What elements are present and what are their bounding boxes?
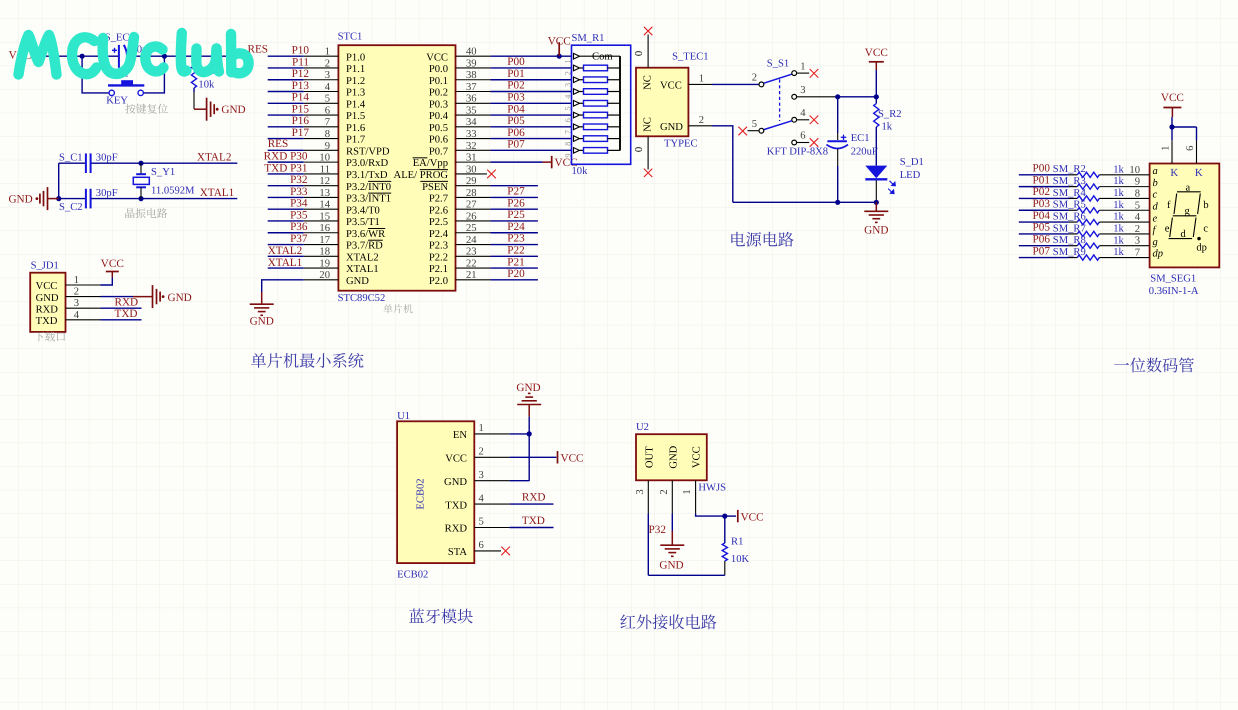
wire pin2 to GND bbox=[101, 296, 134, 298]
svg-text:3: 3 bbox=[563, 83, 572, 87]
wire KEY left leg bbox=[82, 56, 109, 93]
svg-text:S_TEC1: S_TEC1 bbox=[672, 52, 709, 63]
svg-text:P2.6: P2.6 bbox=[429, 205, 448, 216]
svg-text:P32: P32 bbox=[649, 524, 666, 536]
pin 2 stub S_JD1 bbox=[66, 296, 101, 298]
wire P00 to SM_R2 bbox=[1019, 174, 1069, 176]
pin 17 P3.7/RD bbox=[304, 235, 383, 252]
svg-text:P27: P27 bbox=[507, 186, 525, 198]
pin 2 GND (U2) bbox=[659, 445, 680, 513]
svg-text:2: 2 bbox=[74, 287, 79, 298]
svg-text:4: 4 bbox=[1135, 212, 1141, 223]
ground GND (U1 top) bbox=[516, 382, 541, 417]
resistor SM_R5 1k bbox=[1077, 208, 1099, 213]
no-connect X STA bbox=[501, 547, 510, 556]
wire XTAL1 row bbox=[268, 267, 304, 269]
wire EA/Vpp to VCC port bbox=[490, 161, 542, 163]
svg-text:a: a bbox=[1153, 166, 1158, 177]
svg-text:VCC: VCC bbox=[561, 453, 584, 465]
wire P26 bbox=[490, 208, 538, 210]
wire P20 bbox=[490, 279, 538, 281]
switch contact 5 with X bbox=[759, 128, 764, 133]
wire VCC pin2 bbox=[510, 456, 557, 458]
svg-text:P36: P36 bbox=[290, 221, 308, 233]
svg-text:U1: U1 bbox=[397, 411, 410, 422]
svg-text:P1.1: P1.1 bbox=[346, 64, 365, 75]
svg-text:VCC: VCC bbox=[36, 281, 58, 292]
svg-text:EA/Vpp: EA/Vpp bbox=[413, 158, 448, 169]
svg-text:6: 6 bbox=[479, 540, 484, 551]
svg-text:XTAL1: XTAL1 bbox=[200, 187, 235, 199]
svg-text:VCC: VCC bbox=[1161, 92, 1184, 104]
svg-text:NC: NC bbox=[643, 75, 654, 90]
svg-text:TXD: TXD bbox=[445, 500, 467, 511]
svg-text:GND: GND bbox=[864, 225, 888, 237]
svg-text:RES: RES bbox=[268, 138, 289, 150]
pin 9 RST/VPD bbox=[304, 141, 390, 158]
svg-text:P05: P05 bbox=[1033, 222, 1051, 234]
svg-text:3: 3 bbox=[479, 470, 484, 481]
svg-text:30pF: 30pF bbox=[96, 152, 118, 163]
svg-text:1: 1 bbox=[682, 489, 693, 494]
wire S_R2 to LED bbox=[875, 131, 877, 166]
svg-text:GND: GND bbox=[168, 292, 192, 304]
wire TYPEC pin1 to switch bbox=[712, 83, 759, 85]
svg-text:P07: P07 bbox=[507, 139, 525, 151]
wire P01 to SM_R3 bbox=[1019, 186, 1069, 188]
svg-text:5: 5 bbox=[479, 517, 484, 528]
wire PSEN pin29 bbox=[490, 185, 538, 187]
svg-text:9: 9 bbox=[563, 154, 572, 158]
pin 26 P2.5 bbox=[429, 211, 491, 228]
wire P04 bbox=[490, 114, 571, 116]
svg-text:P1.5: P1.5 bbox=[346, 111, 365, 122]
switch contact 4 with X bbox=[792, 117, 797, 122]
svg-text:GND: GND bbox=[36, 293, 59, 304]
svg-text:P2.5: P2.5 bbox=[429, 217, 448, 228]
pin 31 EA/Vpp bbox=[413, 153, 491, 170]
pin 36 P0.3 bbox=[429, 94, 491, 111]
svg-text:RXD: RXD bbox=[36, 304, 59, 315]
svg-text:2: 2 bbox=[699, 115, 704, 126]
svg-text:f: f bbox=[1167, 200, 1171, 211]
no-connect X pin30 bbox=[487, 170, 496, 179]
wire bottom loop (U2) bbox=[648, 574, 725, 576]
svg-text:LED: LED bbox=[900, 170, 921, 181]
svg-text:GND: GND bbox=[444, 477, 467, 488]
svg-text:3: 3 bbox=[74, 298, 79, 309]
pin 29 PSEN bbox=[422, 176, 490, 193]
logo MCUclub bbox=[19, 33, 249, 75]
wire GND pin20 bbox=[262, 280, 304, 292]
svg-text:K: K bbox=[1170, 167, 1178, 179]
svg-text:1k: 1k bbox=[1113, 176, 1124, 187]
node junction R1 top bbox=[722, 514, 727, 519]
svg-text:8: 8 bbox=[563, 142, 572, 146]
wire P37 bbox=[268, 244, 304, 246]
pin 3 P1.2 bbox=[304, 70, 365, 87]
svg-text:b: b bbox=[1153, 178, 1158, 189]
wire OUT down (P32) bbox=[647, 514, 649, 576]
svg-text:P2.2: P2.2 bbox=[429, 252, 448, 263]
svg-text:P21: P21 bbox=[507, 256, 524, 268]
wire P11 bbox=[268, 67, 304, 69]
svg-text:STC89C52: STC89C52 bbox=[338, 293, 386, 304]
svg-text:XTAL1: XTAL1 bbox=[268, 257, 303, 269]
caption infrared receiver (blue) bbox=[620, 614, 716, 629]
svg-text:S_JD1: S_JD1 bbox=[31, 261, 59, 272]
wire P01 bbox=[490, 79, 571, 81]
svg-text:P06: P06 bbox=[507, 127, 525, 139]
svg-text:dp: dp bbox=[1196, 242, 1207, 253]
wire XTAL1 (bottom) bbox=[59, 198, 86, 200]
svg-text:P33: P33 bbox=[290, 186, 308, 198]
power port VCC (MCU pin40) bbox=[548, 36, 571, 59]
wire P21 bbox=[490, 267, 538, 269]
svg-text:GND: GND bbox=[221, 104, 245, 116]
svg-text:P13: P13 bbox=[292, 80, 310, 92]
svg-text:TXD: TXD bbox=[522, 515, 545, 527]
pin 8 P1.7 bbox=[304, 129, 365, 146]
svg-text:VCC: VCC bbox=[865, 47, 888, 59]
pin 11 P3.1/TxD bbox=[304, 164, 388, 181]
switch lever 2-1 bbox=[764, 74, 792, 83]
svg-text:NC: NC bbox=[643, 117, 654, 132]
svg-text:RXD P30: RXD P30 bbox=[264, 151, 308, 163]
svg-text:P0.5: P0.5 bbox=[429, 123, 448, 134]
ground GND (MCU pin20) bbox=[250, 292, 274, 327]
svg-text:S_Y1: S_Y1 bbox=[151, 167, 175, 178]
wire P13 bbox=[268, 91, 304, 93]
svg-text:5: 5 bbox=[1135, 200, 1140, 211]
resistor SM_R4 1k bbox=[1077, 196, 1099, 201]
pin 28 P2.7 bbox=[429, 188, 491, 205]
svg-text:P00: P00 bbox=[1033, 163, 1051, 175]
svg-text:P3.1/TxD: P3.1/TxD bbox=[346, 170, 388, 181]
svg-text:SM_R2: SM_R2 bbox=[1053, 164, 1086, 175]
wire VCC to RES net bbox=[36, 55, 119, 57]
svg-text:P04: P04 bbox=[507, 103, 525, 115]
pin 39 P0.0 bbox=[429, 58, 491, 75]
wire pin4 TXD bbox=[101, 319, 142, 321]
wire GND rail bottom bbox=[733, 201, 877, 203]
wire P04 to SM_R6 bbox=[1019, 221, 1069, 223]
svg-text:SM_SEG1: SM_SEG1 bbox=[1150, 274, 1196, 285]
svg-text:1k: 1k bbox=[1113, 188, 1124, 199]
wire pin1 to VCC bbox=[101, 278, 113, 286]
wire P03 bbox=[490, 102, 571, 104]
svg-text:P01: P01 bbox=[1033, 174, 1050, 186]
capacitor S_C2 30pF bbox=[59, 188, 118, 213]
power port VCC (U1) bbox=[558, 451, 584, 464]
svg-text:SM_R5: SM_R5 bbox=[1053, 200, 1086, 211]
wire VCC rail down bbox=[875, 70, 877, 97]
resistor network internal bbox=[574, 53, 580, 59]
capacitor S_C1 30pF bbox=[59, 152, 118, 173]
wire P22 bbox=[490, 255, 538, 257]
svg-text:SM_R6: SM_R6 bbox=[1053, 211, 1086, 222]
svg-text:P22: P22 bbox=[507, 244, 524, 256]
wire P05 bbox=[490, 126, 571, 128]
svg-text:P20: P20 bbox=[507, 268, 525, 280]
annotation crystal (gray) bbox=[125, 208, 167, 218]
svg-text:0.36IN-1-A: 0.36IN-1-A bbox=[1149, 286, 1199, 297]
svg-text:P2.7: P2.7 bbox=[429, 194, 448, 205]
wire TXD/P31 bbox=[268, 173, 304, 175]
pin 37 P0.2 bbox=[429, 82, 491, 99]
node junction EC1 top bbox=[835, 94, 840, 99]
svg-text:SM_R8: SM_R8 bbox=[1053, 235, 1086, 246]
svg-text:0: 0 bbox=[634, 51, 645, 56]
node junction K bbox=[1169, 124, 1174, 129]
svg-text:P23: P23 bbox=[507, 233, 525, 245]
connector S_TEC1 TYPEC bbox=[636, 52, 709, 150]
switch lever 5-4 bbox=[764, 121, 792, 130]
svg-text:OUT: OUT bbox=[644, 446, 655, 468]
pin 10 P3.0/RxD bbox=[304, 153, 389, 170]
pin 6 STA (U1) bbox=[448, 540, 501, 558]
svg-text:P3.0/RxD: P3.0/RxD bbox=[346, 158, 388, 169]
svg-text:GND: GND bbox=[660, 122, 683, 133]
caption one-digit display (blue) bbox=[1114, 358, 1194, 373]
svg-text:4: 4 bbox=[74, 310, 80, 321]
svg-text:P32: P32 bbox=[290, 174, 307, 186]
wire P02 to SM_R4 bbox=[1019, 197, 1069, 199]
module U2 HWJS body bbox=[636, 422, 726, 494]
pin 2 VCC (U1) bbox=[445, 447, 509, 465]
module U1 ECB02 body bbox=[397, 411, 474, 581]
resistor SM_R6 1k bbox=[1077, 219, 1099, 224]
wire rail horizontal bbox=[838, 96, 877, 98]
svg-text:1: 1 bbox=[800, 61, 805, 72]
svg-text:P3.5/T1: P3.5/T1 bbox=[346, 217, 380, 228]
resistor R1 10K bbox=[722, 516, 749, 575]
svg-text:RXD: RXD bbox=[445, 524, 468, 535]
svg-text:5: 5 bbox=[563, 106, 572, 110]
svg-text:P2.1: P2.1 bbox=[429, 264, 448, 275]
caption bluetooth module (blue) bbox=[409, 609, 473, 624]
wire P15 bbox=[268, 114, 304, 116]
svg-text:6: 6 bbox=[800, 131, 805, 142]
pin 22 P2.1 bbox=[429, 258, 491, 275]
pin K right bbox=[1185, 140, 1203, 179]
resistor SM_R8 1k bbox=[1077, 243, 1099, 248]
pin 18 XTAL2 bbox=[304, 247, 379, 264]
svg-text:P1.2: P1.2 bbox=[346, 76, 365, 87]
svg-text:g: g bbox=[1153, 237, 1158, 248]
wire S_EC1 to RES label bbox=[126, 55, 239, 57]
wire XTAL2 (top) bbox=[59, 162, 86, 164]
wire RES row bbox=[268, 149, 304, 151]
pin 5 P1.4 bbox=[304, 94, 366, 111]
node junction rail bottom bbox=[56, 196, 61, 201]
wire GND down to EN and GND pins bbox=[528, 417, 530, 481]
pin 4 P1.3 bbox=[304, 82, 365, 99]
svg-text:P0.4: P0.4 bbox=[429, 111, 449, 122]
svg-text:e: e bbox=[1153, 213, 1158, 224]
pin 33 P0.6 bbox=[429, 129, 491, 146]
wire GND pin2 down bbox=[671, 514, 673, 531]
wire pin3 RXD bbox=[101, 307, 142, 309]
wire XTAL2 row bbox=[268, 255, 304, 257]
svg-text:3: 3 bbox=[1135, 236, 1140, 247]
resistor S_R2 1k bbox=[874, 97, 902, 133]
svg-text:VCC: VCC bbox=[692, 446, 703, 468]
svg-text:P3.3/INT1: P3.3/INT1 bbox=[346, 194, 391, 205]
node junction crystal bottom bbox=[138, 196, 143, 201]
power port VCC (display) bbox=[1161, 92, 1184, 127]
svg-text:g: g bbox=[1185, 206, 1191, 217]
svg-text:3: 3 bbox=[800, 85, 805, 96]
svg-text:8: 8 bbox=[1135, 188, 1140, 199]
wire P12 bbox=[268, 79, 304, 81]
svg-text:S_D1: S_D1 bbox=[900, 157, 924, 168]
svg-text:1k: 1k bbox=[1113, 164, 1124, 175]
pushbutton S_S2 KEY bbox=[106, 68, 144, 106]
svg-text:220uF: 220uF bbox=[851, 146, 878, 157]
wire P03 to SM_R5 bbox=[1019, 209, 1069, 211]
wire TYPEC pin2 down to GND rail bbox=[712, 126, 733, 203]
pin 35 P0.4 bbox=[429, 105, 491, 122]
pin 1 VCC stub bbox=[688, 83, 712, 85]
seven segment digit glyph bbox=[1177, 191, 1201, 193]
svg-text:KEY: KEY bbox=[106, 96, 128, 107]
svg-text:P3.2/INT0: P3.2/INT0 bbox=[346, 182, 391, 193]
node junction at KEY left bbox=[80, 54, 85, 59]
svg-text:S_C2: S_C2 bbox=[59, 202, 83, 213]
svg-text:1: 1 bbox=[74, 275, 79, 286]
pin 5 RXD (U1) bbox=[445, 517, 510, 535]
svg-text:P1.3: P1.3 bbox=[346, 88, 365, 99]
svg-text:P2.0: P2.0 bbox=[429, 276, 448, 287]
wire P32 bbox=[268, 185, 304, 187]
svg-text:P03: P03 bbox=[1033, 198, 1051, 210]
svg-text:1: 1 bbox=[563, 59, 572, 63]
svg-text:HWJS: HWJS bbox=[698, 482, 726, 493]
node junction EN bbox=[527, 431, 532, 436]
svg-text:SM_R3: SM_R3 bbox=[1053, 176, 1086, 187]
svg-text:6: 6 bbox=[563, 118, 572, 122]
svg-text:6: 6 bbox=[1185, 146, 1196, 151]
svg-text:TXD: TXD bbox=[36, 316, 58, 327]
pin 7 P1.6 bbox=[304, 117, 365, 134]
svg-text:3: 3 bbox=[635, 489, 646, 494]
wire P16 bbox=[268, 126, 304, 128]
svg-text:P2.3: P2.3 bbox=[429, 241, 448, 252]
pin 27 P2.6 bbox=[429, 200, 491, 217]
pin 13 P3.3/INT1 bbox=[304, 188, 391, 205]
svg-text:RXD: RXD bbox=[115, 297, 139, 309]
node junction LED bottom bbox=[874, 200, 879, 205]
svg-text:TYPEC: TYPEC bbox=[664, 139, 698, 150]
svg-text:P02: P02 bbox=[1033, 186, 1050, 198]
caption power circuit (blue) bbox=[731, 232, 793, 247]
power port VCC (download) bbox=[101, 258, 124, 278]
pin 14 P3.4/T0 bbox=[304, 200, 380, 217]
resistor SM_R7 1k bbox=[1077, 231, 1099, 236]
pin 24 P2.3 bbox=[429, 235, 491, 252]
svg-text:P0.6: P0.6 bbox=[429, 135, 448, 146]
svg-text:P26: P26 bbox=[507, 197, 525, 209]
svg-text:e: e bbox=[1165, 224, 1170, 235]
svg-text:XTAL2: XTAL2 bbox=[346, 252, 379, 263]
wire P06 bbox=[490, 138, 571, 140]
switch contact 3 wire to power rail bbox=[792, 94, 797, 99]
svg-text:4: 4 bbox=[479, 493, 485, 504]
svg-text:1k: 1k bbox=[1113, 212, 1124, 223]
svg-text:P37: P37 bbox=[290, 233, 308, 245]
svg-text:P34: P34 bbox=[290, 198, 308, 210]
connector S_JD1 (download port) bbox=[30, 261, 65, 332]
annotation MCU (gray) bbox=[383, 304, 412, 313]
svg-text:TXD P31: TXD P31 bbox=[264, 162, 307, 174]
svg-text:GND: GND bbox=[250, 315, 274, 327]
wire P10 bbox=[268, 55, 304, 57]
pin 3 stub S_JD1 bbox=[66, 307, 101, 309]
svg-text:EC1: EC1 bbox=[851, 133, 870, 144]
svg-text:a: a bbox=[1186, 183, 1191, 194]
node junction EC1 bottom bbox=[835, 200, 840, 205]
svg-text:P1.7: P1.7 bbox=[346, 135, 365, 146]
svg-text:10k: 10k bbox=[198, 80, 215, 91]
svg-text:P35: P35 bbox=[290, 209, 308, 221]
svg-text:S_R2: S_R2 bbox=[878, 109, 902, 120]
annotation reset (gray) bbox=[125, 104, 168, 114]
pin 1 P1.0 bbox=[304, 47, 365, 64]
wire P27 bbox=[490, 196, 538, 198]
svg-text:d: d bbox=[1153, 201, 1159, 212]
svg-text:P0.3: P0.3 bbox=[429, 99, 448, 110]
power port VCC (power circuit) bbox=[865, 47, 888, 70]
svg-text:P0.2: P0.2 bbox=[429, 88, 448, 99]
svg-text:STA: STA bbox=[448, 547, 468, 558]
pin 40 VCC bbox=[426, 47, 490, 64]
wire P36 bbox=[268, 232, 304, 234]
wire P02 bbox=[490, 91, 571, 93]
capacitor EC1 220uF bbox=[826, 97, 877, 203]
svg-text:XTAL2: XTAL2 bbox=[268, 245, 303, 257]
pin 6 P1.5 bbox=[304, 105, 365, 122]
svg-text:VCC: VCC bbox=[741, 511, 764, 523]
wire VCC pin1 to junction bbox=[696, 514, 725, 517]
svg-text:R1: R1 bbox=[731, 537, 743, 548]
svg-text:STC1: STC1 bbox=[338, 32, 363, 43]
svg-text:1: 1 bbox=[479, 423, 484, 434]
pin 38 P0.1 bbox=[429, 70, 491, 87]
svg-text:P02: P02 bbox=[507, 80, 524, 92]
svg-text:VCC: VCC bbox=[548, 36, 571, 48]
pin K left bbox=[1160, 140, 1178, 179]
resistor SM_R9 1k bbox=[1077, 255, 1099, 260]
svg-text:GND: GND bbox=[346, 276, 369, 287]
svg-text:P0.1: P0.1 bbox=[429, 76, 448, 87]
pin 4 TXD (U1) bbox=[445, 493, 509, 511]
wire P23 bbox=[490, 244, 538, 246]
svg-text:P15: P15 bbox=[292, 103, 310, 115]
svg-text:d: d bbox=[1181, 229, 1187, 240]
power port VCC (U2) bbox=[725, 510, 764, 523]
ground GND (U2) bbox=[659, 531, 684, 572]
svg-text:XTAL2: XTAL2 bbox=[197, 151, 232, 163]
svg-text:30pF: 30pF bbox=[96, 188, 118, 199]
svg-text:SM_R1: SM_R1 bbox=[572, 33, 605, 44]
svg-text:P01: P01 bbox=[507, 68, 524, 80]
svg-text:P03: P03 bbox=[507, 91, 525, 103]
svg-text:2: 2 bbox=[563, 71, 572, 75]
svg-text:1k: 1k bbox=[1113, 235, 1124, 246]
wire P00 bbox=[490, 67, 571, 69]
svg-text:ECB02: ECB02 bbox=[415, 478, 426, 509]
